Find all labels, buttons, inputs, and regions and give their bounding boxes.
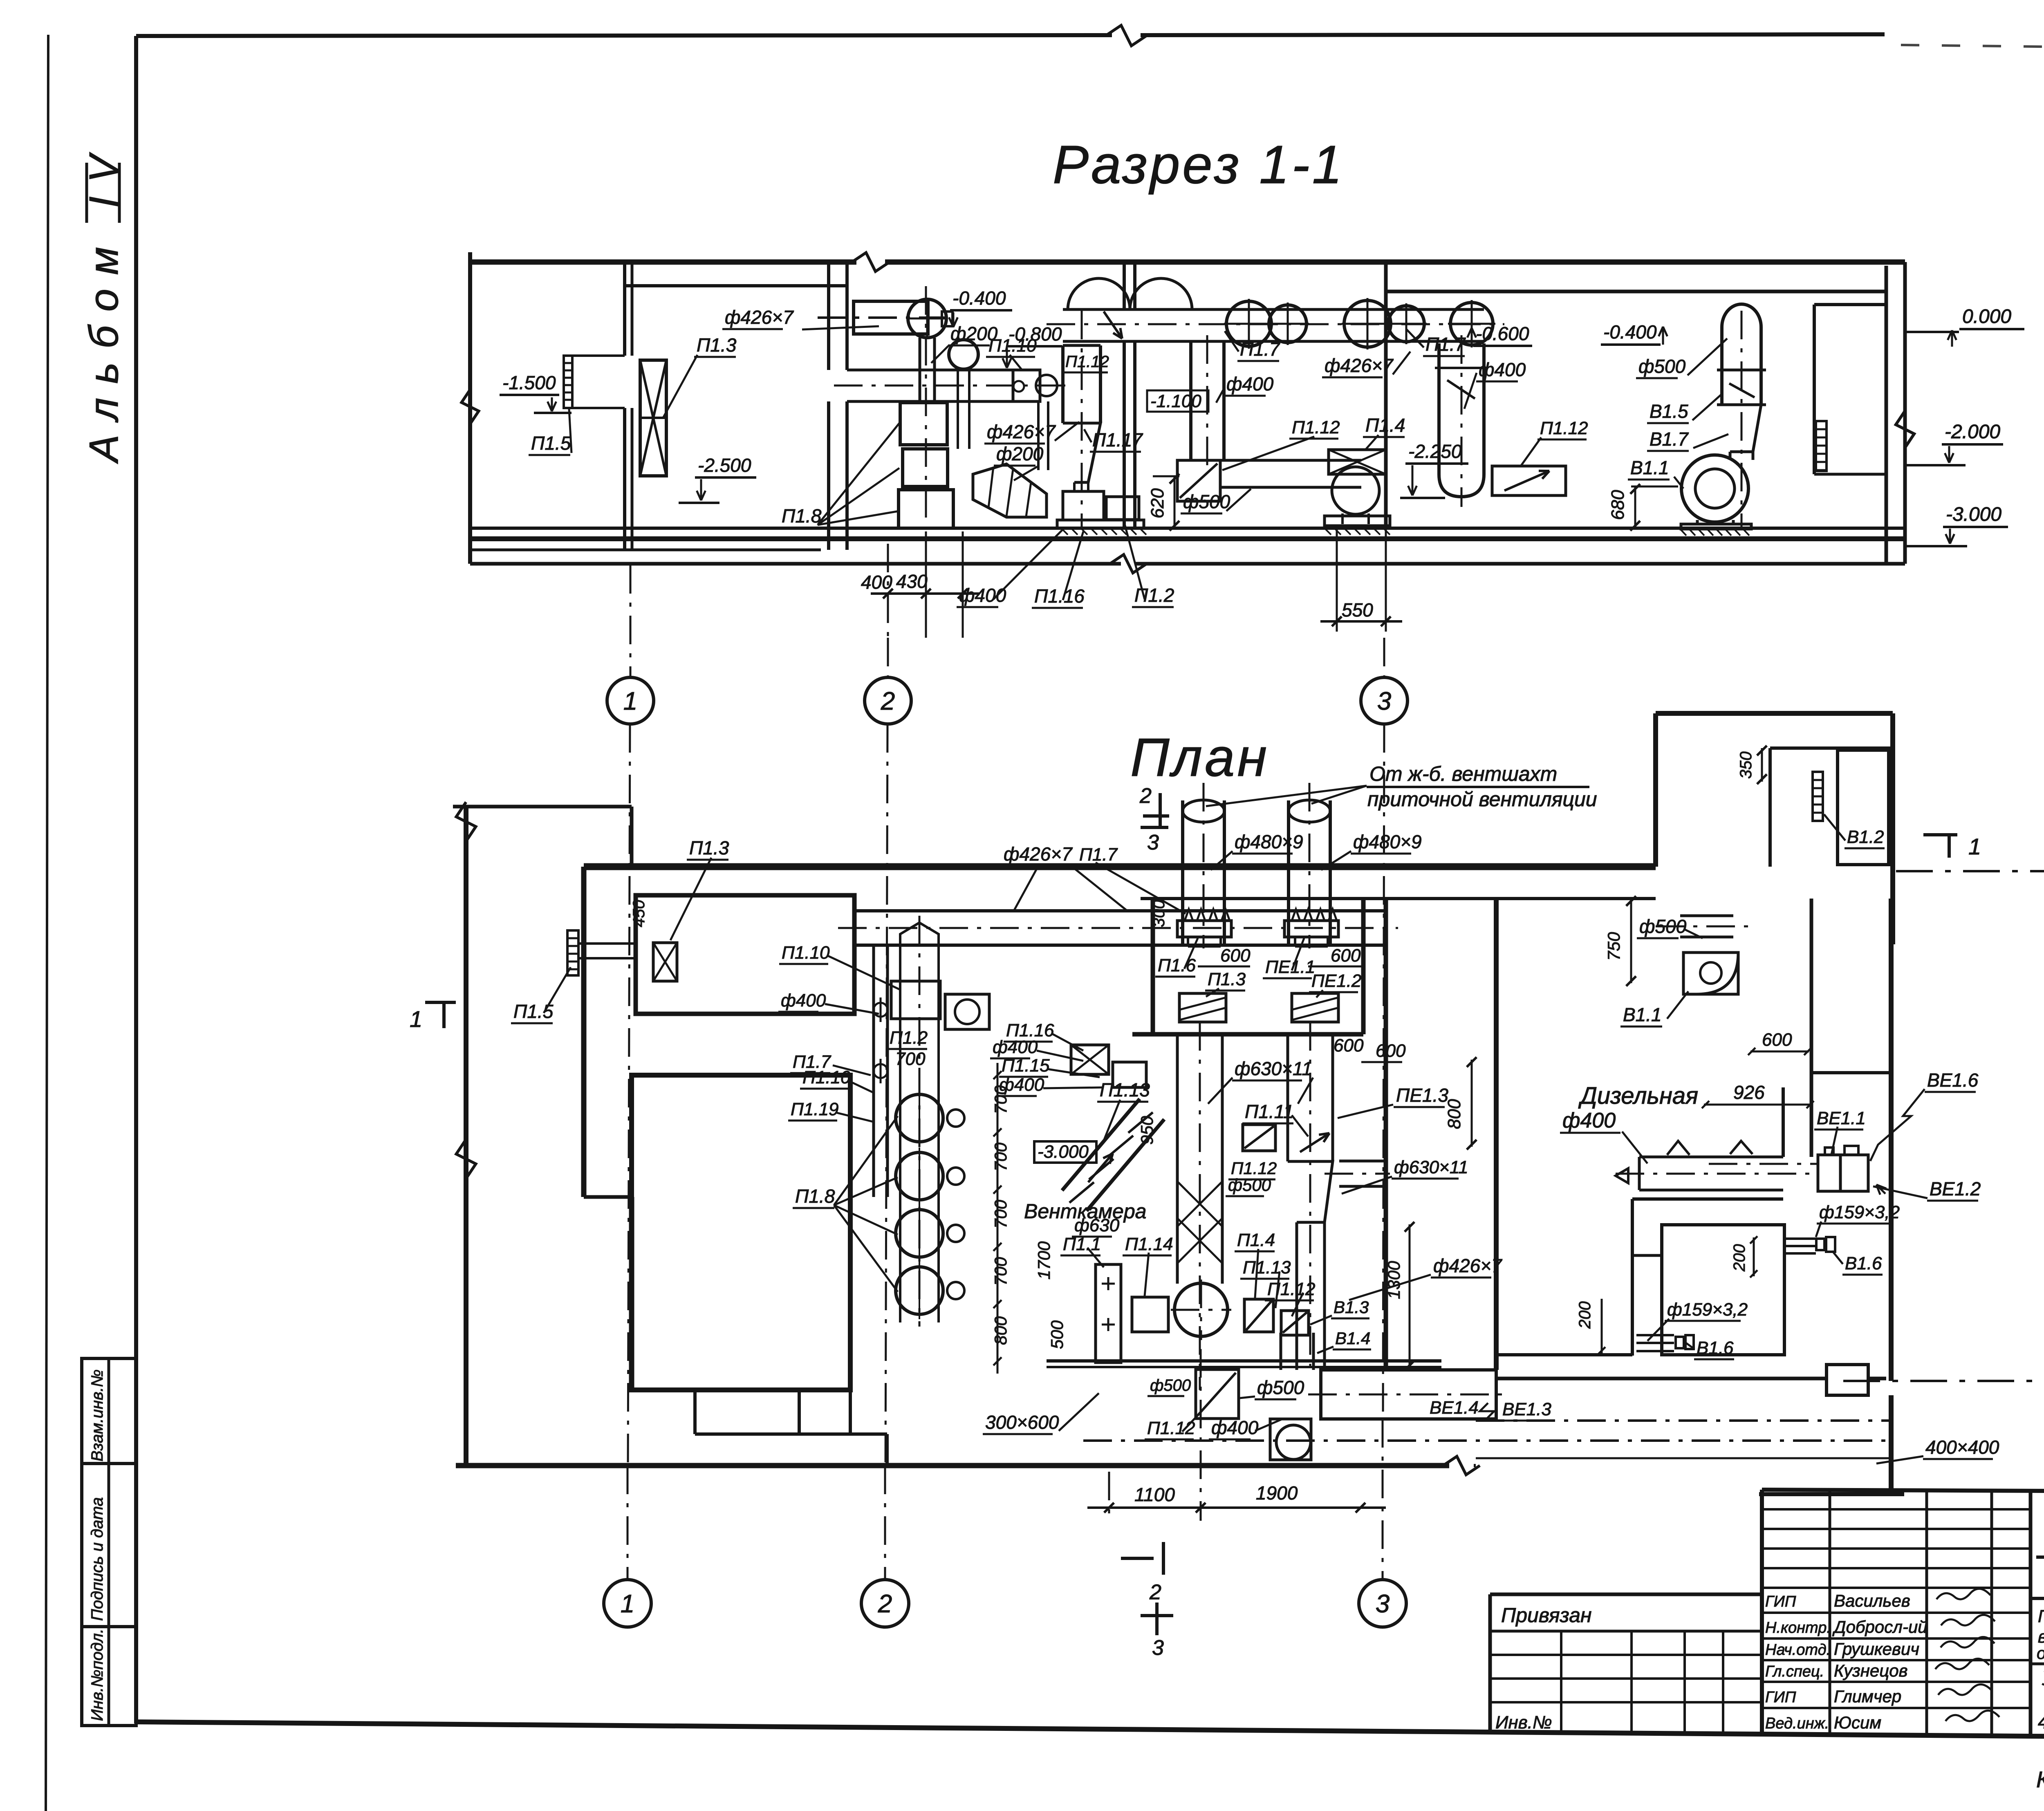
svg-text:П1.7: П1.7 — [1240, 338, 1280, 360]
svg-text:700: 700 — [991, 1142, 1010, 1171]
svg-text:П1.10: П1.10 — [782, 943, 830, 963]
svg-text:1: 1 — [1968, 834, 1981, 859]
svg-text:2: 2 — [1139, 784, 1152, 808]
svg-text:П1.12: П1.12 — [1065, 353, 1109, 371]
svg-text:ф426×7: ф426×7 — [987, 421, 1056, 442]
svg-text:680: 680 — [1608, 490, 1628, 520]
svg-text:Вед.инж.: Вед.инж. — [1765, 1715, 1829, 1732]
svg-text:ВЕ1.1: ВЕ1.1 — [1817, 1108, 1866, 1128]
svg-text:П1.11: П1.11 — [1245, 1101, 1293, 1122]
svg-text:ф400: ф400 — [993, 1037, 1038, 1057]
svg-text:П1.10: П1.10 — [802, 1067, 851, 1087]
svg-text:П1.13: П1.13 — [1243, 1257, 1291, 1278]
svg-text:ПЕ1.1: ПЕ1.1 — [1265, 957, 1315, 977]
svg-text:3: 3 — [1376, 1590, 1390, 1618]
svg-text:П1.7: П1.7 — [1079, 845, 1118, 865]
svg-text:П1.12: П1.12 — [1292, 417, 1340, 437]
svg-text:В1.3: В1.3 — [1334, 1298, 1369, 1317]
svg-text:Производственное здания: Производственное здания — [2038, 1607, 2044, 1626]
svg-text:ф630×11: ф630×11 — [1235, 1058, 1312, 1079]
svg-text:Н.контр.: Н.контр. — [1765, 1619, 1831, 1636]
svg-text:ф400: ф400 — [781, 991, 826, 1011]
svg-text:П1.19: П1.19 — [791, 1099, 839, 1119]
svg-text:ф400: ф400 — [1226, 373, 1274, 394]
svg-text:0.000: 0.000 — [1962, 306, 2011, 327]
svg-text:400: 400 — [861, 572, 892, 593]
svg-text:ВЕ1.2: ВЕ1.2 — [1930, 1178, 1981, 1199]
svg-text:отдельно стоящее заглубленное: отдельно стоящее заглубленное — [2037, 1644, 2044, 1663]
svg-text:П1.1: П1.1 — [1063, 1234, 1101, 1254]
svg-text:ГИП: ГИП — [1765, 1593, 1796, 1610]
svg-text:-0.800: -0.800 — [1009, 323, 1062, 345]
svg-text:ф426×7: ф426×7 — [725, 307, 794, 328]
svg-text:В1.6: В1.6 — [1845, 1253, 1882, 1273]
svg-text:Гл.спец.: Гл.спец. — [1765, 1663, 1824, 1680]
svg-text:Добросл-ий: Добросл-ий — [1832, 1617, 1927, 1636]
svg-text:950: 950 — [1137, 1116, 1156, 1145]
svg-text:П1.14: П1.14 — [1125, 1234, 1173, 1254]
svg-text:ф500: ф500 — [1639, 916, 1687, 937]
svg-text:П1.2: П1.2 — [1134, 585, 1174, 606]
svg-text:1: 1 — [623, 687, 637, 715]
svg-text:В1.7: В1.7 — [1650, 428, 1689, 450]
svg-text:Грушкевич: Грушкевич — [1834, 1639, 1919, 1659]
svg-text:Установки систем П1,В1: Установки систем П1,В1 — [2042, 1668, 2044, 1690]
svg-text:ВЕ1.6: ВЕ1.6 — [1927, 1069, 1979, 1091]
svg-text:ф500: ф500 — [1183, 491, 1230, 512]
svg-text:1: 1 — [410, 1006, 422, 1032]
svg-text:Нач.отд.: Нач.отд. — [1765, 1641, 1831, 1659]
svg-text:П1.7: П1.7 — [1425, 334, 1466, 355]
svg-text:П1.4: П1.4 — [1365, 415, 1405, 436]
svg-text:ПЕ1.3: ПЕ1.3 — [1396, 1085, 1448, 1106]
svg-text:430: 430 — [896, 571, 928, 592]
svg-text:Взам.инв.№: Взам.инв.№ — [88, 1369, 106, 1461]
svg-text:Дизельная: Дизельная — [1578, 1083, 1698, 1109]
svg-text:500: 500 — [1047, 1320, 1067, 1349]
svg-text:ф630×11: ф630×11 — [1394, 1157, 1468, 1177]
svg-text:ф630: ф630 — [1074, 1215, 1120, 1235]
svg-text:П1.17: П1.17 — [1092, 429, 1143, 451]
svg-text:В1.5: В1.5 — [1650, 401, 1688, 422]
svg-text:Привязан: Привязан — [1501, 1604, 1592, 1627]
svg-text:600: 600 — [1334, 1035, 1364, 1056]
svg-text:ф159×3,2: ф159×3,2 — [1667, 1300, 1748, 1320]
svg-text:-3.000: -3.000 — [1038, 1142, 1089, 1162]
svg-text:ф400: ф400 — [1211, 1417, 1259, 1438]
svg-text:ф480×9: ф480×9 — [1235, 831, 1303, 852]
svg-text:-2.000: -2.000 — [1945, 421, 2000, 443]
svg-text:4климатическая зона: 4климатическая зона — [2038, 1711, 2044, 1733]
svg-text:Подпись и дата: Подпись и дата — [88, 1497, 106, 1621]
svg-text:2: 2 — [881, 687, 895, 715]
svg-text:600: 600 — [1376, 1041, 1406, 1061]
svg-text:ПЕ1.2: ПЕ1.2 — [1311, 971, 1361, 991]
svg-text:ф200: ф200 — [996, 443, 1044, 464]
svg-text:Разрез 1-1: Разрез 1-1 — [1053, 134, 1345, 195]
svg-text:-0.600: -0.600 — [1476, 323, 1529, 344]
svg-text:П1.5: П1.5 — [531, 433, 571, 454]
svg-text:400×400: 400×400 — [1925, 1437, 1999, 1458]
svg-text:П1.8: П1.8 — [795, 1186, 835, 1207]
svg-text:ф400: ф400 — [959, 585, 1006, 606]
svg-text:П1.12: П1.12 — [1231, 1159, 1277, 1178]
svg-text:-0.400: -0.400 — [953, 287, 1006, 309]
svg-text:700: 700 — [895, 1049, 926, 1069]
svg-text:ВЕ1.3: ВЕ1.3 — [1502, 1399, 1551, 1419]
svg-text:3: 3 — [1147, 831, 1159, 854]
svg-text:-2.500: -2.500 — [698, 455, 751, 476]
svg-text:В1.6: В1.6 — [1697, 1338, 1734, 1358]
svg-text:-0.400: -0.400 — [1603, 321, 1657, 343]
svg-text:1100: 1100 — [1134, 1484, 1175, 1505]
svg-text:3: 3 — [1377, 687, 1391, 715]
svg-text:350: 350 — [1737, 751, 1755, 779]
svg-text:ф480×9: ф480×9 — [1353, 831, 1422, 852]
svg-text:В1.2: В1.2 — [1847, 827, 1884, 847]
svg-text:-2.250: -2.250 — [1408, 441, 1462, 462]
svg-text:Юсим: Юсим — [1834, 1713, 1881, 1732]
svg-text:В1.4: В1.4 — [1335, 1329, 1370, 1348]
svg-text:2: 2 — [878, 1590, 892, 1618]
svg-text:П1.2: П1.2 — [890, 1028, 928, 1048]
svg-text:ф400: ф400 — [1479, 359, 1526, 380]
svg-text:П1.6: П1.6 — [1158, 955, 1196, 975]
svg-text:П1.12: П1.12 — [1147, 1418, 1195, 1438]
svg-text:П1.8: П1.8 — [782, 505, 822, 527]
svg-text:План: План — [1130, 727, 1269, 787]
svg-text:-1.500: -1.500 — [502, 372, 556, 393]
svg-text:П1.3: П1.3 — [697, 334, 737, 356]
svg-text:П1.5: П1.5 — [513, 1001, 554, 1022]
svg-text:ф500: ф500 — [1150, 1376, 1191, 1394]
svg-text:700: 700 — [991, 1257, 1010, 1286]
svg-text:600: 600 — [1331, 946, 1361, 966]
svg-text:ГИП: ГИП — [1765, 1689, 1796, 1706]
svg-text:200: 200 — [1730, 1244, 1748, 1272]
svg-text:200: 200 — [1576, 1301, 1594, 1329]
svg-text:600: 600 — [1220, 946, 1251, 966]
svg-text:ф200: ф200 — [950, 323, 998, 344]
svg-text:300×600: 300×600 — [985, 1412, 1059, 1433]
svg-text:В1.1: В1.1 — [1623, 1004, 1662, 1025]
svg-text:550: 550 — [1342, 599, 1373, 621]
svg-text:300: 300 — [1150, 900, 1168, 927]
svg-text:600: 600 — [1762, 1030, 1792, 1050]
svg-text:От ж-б. вентшахт: От ж-б. вентшахт — [1369, 762, 1557, 785]
svg-text:800: 800 — [1444, 1099, 1464, 1129]
svg-text:800: 800 — [991, 1316, 1010, 1345]
svg-text:ф159×3,2: ф159×3,2 — [1819, 1202, 1900, 1222]
svg-text:Васильев: Васильев — [1834, 1591, 1910, 1610]
svg-text:1700: 1700 — [1034, 1241, 1053, 1280]
svg-text:Инв.№подл.: Инв.№подл. — [88, 1629, 106, 1721]
svg-text:П1.12: П1.12 — [1267, 1279, 1316, 1299]
svg-text:620: 620 — [1148, 488, 1168, 518]
svg-text:П1.3: П1.3 — [1208, 969, 1246, 989]
svg-text:ф500: ф500 — [1228, 1175, 1271, 1195]
svg-text:П1.16: П1.16 — [1034, 585, 1085, 607]
svg-text:-1.100: -1.100 — [1150, 391, 1201, 411]
svg-text:1900: 1900 — [1256, 1482, 1298, 1504]
svg-text:ф400: ф400 — [999, 1075, 1044, 1095]
svg-text:750: 750 — [1604, 932, 1623, 961]
svg-text:ф426×7: ф426×7 — [1325, 355, 1394, 376]
svg-text:ф426×7: ф426×7 — [1433, 1255, 1502, 1276]
svg-text:ф426×7: ф426×7 — [1004, 843, 1073, 865]
svg-text:ф500: ф500 — [1257, 1377, 1304, 1398]
svg-text:ф500: ф500 — [1638, 356, 1686, 377]
svg-text:-3.000: -3.000 — [1946, 504, 2001, 525]
svg-text:П1.12: П1.12 — [1540, 418, 1588, 438]
svg-text:ВЕ1.4: ВЕ1.4 — [1430, 1398, 1479, 1418]
svg-text:700: 700 — [991, 1199, 1010, 1228]
svg-text:2: 2 — [1149, 1580, 1161, 1604]
svg-text:450: 450 — [630, 900, 648, 927]
svg-text:П1.15: П1.15 — [1002, 1056, 1050, 1076]
svg-text:ф400: ф400 — [1562, 1109, 1616, 1132]
svg-text:П1.3: П1.3 — [689, 837, 729, 858]
svg-text:Глимчер: Глимчер — [1834, 1687, 1901, 1706]
svg-text:П1.4: П1.4 — [1237, 1230, 1275, 1250]
svg-text:Инв.№: Инв.№ — [1495, 1712, 1552, 1733]
svg-text:приточной вентиляции: приточной вентиляции — [1367, 788, 1597, 811]
svg-text:В1.1: В1.1 — [1630, 457, 1669, 478]
svg-text:Копировал: Копировал — [2036, 1766, 2044, 1792]
svg-text:3: 3 — [1152, 1636, 1164, 1660]
svg-text:926: 926 — [1733, 1082, 1765, 1103]
svg-text:П1.13: П1.13 — [1100, 1079, 1150, 1100]
svg-text:1: 1 — [621, 1590, 634, 1618]
svg-text:Кузнецов: Кузнецов — [1834, 1661, 1908, 1680]
